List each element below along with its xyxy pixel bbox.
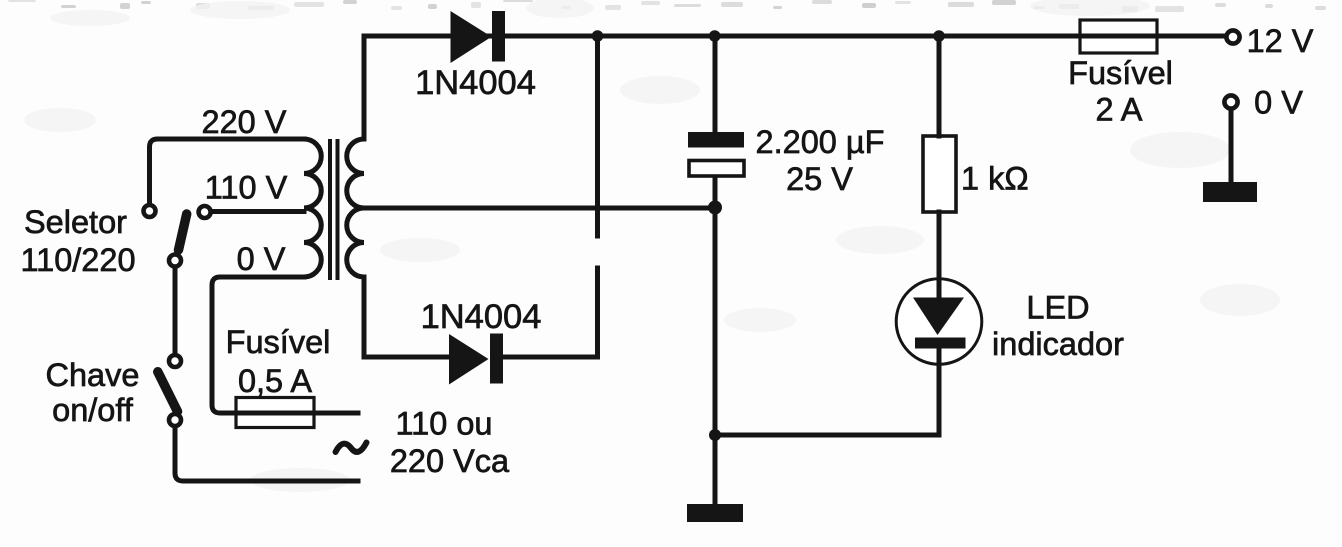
capacitor C1 bottom plate bbox=[689, 161, 744, 177]
svg-text:0 V: 0 V bbox=[1254, 85, 1303, 121]
svg-text:25 V: 25 V bbox=[786, 161, 853, 197]
svg-text:220 V: 220 V bbox=[202, 104, 287, 140]
transformer T1 primary winding bbox=[304, 139, 321, 277]
ground bar right bbox=[1203, 182, 1257, 202]
junction dot rail-resistor bbox=[933, 30, 945, 42]
svg-text:1 kΩ: 1 kΩ bbox=[961, 161, 1029, 197]
wire top rail bbox=[364, 34, 1226, 39]
wire riser lower segment bbox=[595, 268, 600, 357]
svg-text:Seletor: Seletor bbox=[24, 204, 127, 240]
junction dot rail-capacitor bbox=[709, 30, 721, 42]
wire on-off switch to lower AC line bbox=[175, 427, 358, 482]
on-off switch bottom contact bbox=[169, 414, 181, 426]
selector switch 110V contact bbox=[199, 206, 211, 218]
wire 220V tap bbox=[150, 139, 305, 205]
AC tilde symbol bbox=[336, 443, 367, 453]
selector switch blade bbox=[179, 214, 187, 250]
LED LED1 circle bbox=[896, 279, 982, 365]
svg-text:Chave: Chave bbox=[46, 357, 140, 393]
selector switch pole contact bbox=[169, 255, 181, 267]
wire riser upper segment bbox=[595, 36, 600, 236]
svg-text:220 Vca: 220 Vca bbox=[390, 443, 510, 479]
svg-text:on/off: on/off bbox=[52, 392, 134, 428]
capacitor C1 top plate bbox=[688, 132, 744, 148]
transformer T1 secondary winding bbox=[347, 139, 364, 277]
wire secondary bottom lead bbox=[362, 277, 367, 357]
svg-text:110 V: 110 V bbox=[205, 170, 288, 206]
on-off switch top contact bbox=[169, 355, 181, 367]
diode D1 1N4004 triangle bbox=[451, 11, 492, 63]
svg-text:2.200 µF: 2.200 µF bbox=[756, 124, 885, 160]
wire bottom diode cathode to riser bbox=[501, 355, 598, 360]
wire bottom diode anode bbox=[364, 355, 451, 360]
junction dot rail-riser bbox=[592, 30, 604, 42]
wire secondary top lead bbox=[362, 36, 367, 139]
wire capacitor bottom lead bbox=[713, 176, 718, 504]
wire center tap bbox=[364, 206, 715, 211]
LED LED1 cathode bar bbox=[915, 338, 966, 349]
wire 110V tap bbox=[211, 209, 304, 214]
svg-text:indicador: indicador bbox=[992, 326, 1124, 362]
ground bar center bbox=[687, 504, 743, 522]
wire resistor top lead bbox=[937, 36, 942, 136]
svg-text:12 V: 12 V bbox=[1247, 23, 1314, 59]
selector switch left contact bbox=[144, 205, 156, 217]
on-off switch blade bbox=[158, 372, 178, 412]
fuse F1 0,5 A body bbox=[236, 398, 314, 428]
wire selector to on-off switch bbox=[173, 267, 178, 354]
wire 0V terminal lead bbox=[1229, 110, 1234, 184]
junction dot center tap-capacitor bbox=[708, 201, 722, 215]
transformer T1 core bbox=[330, 141, 338, 278]
wire 0V tap to fuse line bbox=[212, 277, 358, 413]
wire bottom return bbox=[715, 433, 939, 438]
svg-text:110/220: 110/220 bbox=[20, 242, 135, 278]
fuse F2 2 A body bbox=[1080, 20, 1157, 53]
svg-text:LED: LED bbox=[1026, 290, 1089, 326]
svg-text:Fusível: Fusível bbox=[226, 324, 331, 360]
diode D1 cathode bar bbox=[492, 11, 505, 62]
svg-text:0 V: 0 V bbox=[237, 241, 286, 277]
wire capacitor top lead bbox=[713, 36, 718, 132]
svg-text:110 ou: 110 ou bbox=[396, 406, 493, 442]
svg-text:2 A: 2 A bbox=[1096, 92, 1143, 128]
terminal 0 V bbox=[1224, 95, 1237, 108]
terminal 12 V bbox=[1226, 30, 1239, 43]
svg-text:Fusível: Fusível bbox=[1068, 55, 1173, 91]
resistor R1 body bbox=[923, 136, 956, 212]
LED LED1 triangle bbox=[913, 298, 964, 336]
wire resistor to LED bbox=[937, 212, 942, 297]
junction dot capacitor-return bbox=[709, 429, 721, 441]
svg-text:1N4004: 1N4004 bbox=[421, 298, 542, 336]
diode D2 1N4004 triangle bbox=[449, 334, 489, 385]
svg-text:0,5 A: 0,5 A bbox=[238, 363, 312, 399]
svg-text:1N4004: 1N4004 bbox=[415, 64, 536, 102]
diode D2 cathode bar bbox=[490, 334, 503, 384]
wire LED bottom lead bbox=[937, 348, 942, 435]
